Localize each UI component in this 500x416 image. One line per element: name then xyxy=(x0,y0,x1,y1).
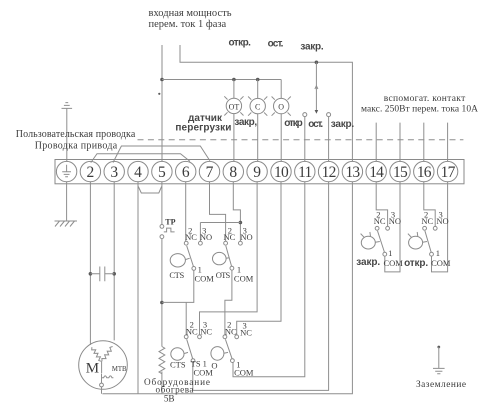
svg-text:С: С xyxy=(255,103,260,112)
svg-text:входная мощность: входная мощность xyxy=(149,8,232,19)
svg-text:Заземление: Заземление xyxy=(416,380,466,390)
svg-text:OTS: OTS xyxy=(216,270,231,280)
svg-text:закр,: закр, xyxy=(234,117,257,128)
svg-text:5: 5 xyxy=(158,164,166,181)
svg-text:10: 10 xyxy=(274,164,289,181)
svg-text:откр.: откр. xyxy=(404,258,428,269)
svg-text:NO: NO xyxy=(436,216,448,226)
svg-text:МТВ: МТВ xyxy=(112,366,127,373)
svg-text:15: 15 xyxy=(393,164,408,181)
svg-text:COM: COM xyxy=(431,258,451,268)
svg-text:COM: COM xyxy=(384,258,404,268)
svg-text:NC: NC xyxy=(200,326,212,336)
svg-text:ОТ: ОТ xyxy=(229,102,240,111)
svg-text:6: 6 xyxy=(182,164,190,181)
svg-text:COM: COM xyxy=(234,274,254,284)
svg-text:перегрузки: перегрузки xyxy=(175,122,231,133)
svg-text:8: 8 xyxy=(229,164,237,181)
svg-text:CTS: CTS xyxy=(169,270,184,280)
svg-text:14: 14 xyxy=(369,164,384,181)
svg-text:вспомогат. контакт: вспомогат. контакт xyxy=(384,94,466,104)
svg-text:ост.: ост. xyxy=(268,39,284,50)
svg-text:ост.: ост. xyxy=(308,119,323,130)
svg-text:3: 3 xyxy=(110,164,118,181)
svg-text:закр.: закр. xyxy=(331,119,355,130)
svg-text:13: 13 xyxy=(345,164,360,181)
svg-text:NC: NC xyxy=(240,327,252,337)
svg-text:COM: COM xyxy=(195,274,215,284)
svg-text:О: О xyxy=(278,103,284,112)
svg-text:Пользовательская проводка: Пользовательская проводка xyxy=(16,129,136,140)
svg-text:11: 11 xyxy=(298,164,311,181)
svg-text:макс. 250Вт перем. тока 10А: макс. 250Вт перем. тока 10А xyxy=(361,104,478,114)
svg-text:NC: NC xyxy=(421,216,433,226)
svg-text:Проводка привода: Проводка привода xyxy=(35,140,118,151)
svg-text:откр: откр xyxy=(284,118,303,129)
svg-text:1: 1 xyxy=(388,248,392,258)
svg-text:NC: NC xyxy=(225,326,237,336)
svg-text:перем. ток 1 фаза: перем. ток 1 фаза xyxy=(149,19,227,30)
svg-text:7: 7 xyxy=(206,164,214,181)
svg-text:2: 2 xyxy=(87,164,95,181)
svg-text:4: 4 xyxy=(134,164,142,181)
svg-text:NO: NO xyxy=(200,232,212,242)
svg-text:COM: COM xyxy=(234,368,254,378)
svg-text:NC: NC xyxy=(185,232,197,242)
svg-text:O: O xyxy=(211,361,217,371)
svg-text:NC: NC xyxy=(186,326,198,336)
svg-text:NO: NO xyxy=(389,216,401,226)
svg-text:1: 1 xyxy=(436,248,440,258)
svg-text:закр.: закр. xyxy=(300,42,324,53)
svg-text:16: 16 xyxy=(417,164,432,181)
svg-text:17: 17 xyxy=(441,164,456,181)
svg-text:NC: NC xyxy=(223,232,235,242)
svg-text:NO: NO xyxy=(240,232,252,242)
svg-text:ТР: ТР xyxy=(165,218,175,227)
svg-text:CTS: CTS xyxy=(170,360,186,370)
svg-text:9: 9 xyxy=(253,164,261,181)
svg-text:закр.: закр. xyxy=(356,257,380,268)
svg-text:М: М xyxy=(86,361,99,377)
svg-text:5В: 5В xyxy=(164,394,175,404)
svg-text:откр.: откр. xyxy=(228,37,251,48)
svg-text:NC: NC xyxy=(374,216,386,226)
svg-text:12: 12 xyxy=(322,164,336,181)
